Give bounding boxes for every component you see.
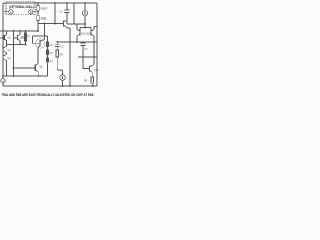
wire R6 to rail	[91, 83, 93, 86]
wire x55 from rail	[54, 3, 56, 24]
wire V+ drop x74	[73, 3, 75, 24]
node junction dot (55,23.5)	[54, 23, 56, 25]
node junction dot (38.2,76)	[37, 75, 39, 77]
node junction dot (77,42)	[76, 41, 78, 43]
wire input bus y31	[0, 30, 38, 32]
resistor R1	[46, 42, 48, 47]
wire V- bottom rail	[3, 85, 97, 87]
wire left vertical (null pin 1 / base line)	[2, 3, 4, 79]
wire stack verticals	[46, 47, 48, 76]
current source I2	[60, 75, 65, 86]
transistor Q2	[14, 31, 25, 45]
wire null pin8 to R2 node	[33, 11, 38, 13]
transistor Q3	[3, 45, 11, 55]
resistor R4	[46, 58, 48, 63]
resistor R2A	[37, 6, 40, 11]
resistor R7	[25, 31, 27, 45]
wire x13.5 tail bus	[13, 38, 15, 76]
pin 8 circle	[29, 10, 33, 14]
node junction dot (94,57)	[93, 56, 95, 58]
node junction dot (38,3)	[37, 2, 39, 4]
svg-text:(OPTIONAL NULL): (OPTIONAL NULL)	[9, 5, 34, 9]
wire Q7 collector vertical x44.4	[43, 24, 45, 40]
svg-text:Q4: Q4	[7, 57, 11, 60]
node junction dot (70,86)	[69, 85, 71, 87]
svg-text:R1: R1	[50, 44, 54, 47]
capacitor C3	[80, 42, 88, 57]
node junction dot (13.5,44.5)	[13, 44, 15, 46]
wire R2 branch vertical	[37, 3, 39, 31]
resistor R6	[91, 77, 94, 83]
resistor R5	[56, 50, 59, 57]
node junction dot (94,42)	[93, 41, 95, 43]
node junction dot (3,31)	[2, 30, 4, 32]
capacitor C2	[55, 42, 64, 50]
wire R5 to current source	[57, 57, 62, 75]
svg-text:R3: R3	[50, 52, 54, 55]
node junction dot (85,3)	[84, 2, 86, 4]
node junction dot (74,24)	[73, 23, 75, 25]
node junction dot (62.5,86)	[62, 85, 64, 87]
optional null dashed box	[6, 2, 35, 15]
node junction dot (70,42)	[69, 41, 71, 43]
node junction dot (25.5,44.5)	[25, 44, 27, 46]
svg-text:R6: R6	[84, 79, 88, 83]
node junction dot (38,31)	[37, 30, 39, 32]
svg-text:Q21: Q21	[94, 69, 99, 72]
resistor R2B	[37, 15, 40, 20]
svg-text:Q3: Q3	[7, 49, 11, 52]
wire output pair base line	[80, 28, 91, 30]
node junction dot (83,57)	[82, 56, 84, 58]
svg-text:Q5: Q5	[39, 66, 43, 69]
wire V+ top rail	[3, 2, 97, 4]
node junction dot (74,3)	[73, 2, 75, 4]
wire left vertical below pin circle	[2, 83, 4, 86]
node junction dot (20,31)	[19, 30, 21, 32]
node junction dot (57.3,42)	[56, 41, 58, 43]
node junction dot (67,3)	[66, 2, 68, 4]
transistor Q5	[14, 64, 44, 76]
transistor Q4	[3, 54, 11, 76]
svg-text:Q1: Q1	[8, 37, 12, 40]
wire null pin1 stub	[3, 11, 9, 13]
svg-text:C3: C3	[84, 48, 88, 51]
node junction dot (25.5,31)	[25, 30, 27, 32]
node junction dot (13.5,31)	[13, 30, 15, 32]
current source I1	[82, 3, 87, 28]
transistor Q7	[27, 35, 45, 64]
wire emitter bus line A	[3, 75, 47, 77]
transistor Q21	[83, 57, 99, 77]
capacitor C1	[60, 3, 70, 20]
node junction dot (85,27.5)	[84, 27, 86, 29]
svg-text:R2A*: R2A*	[41, 7, 49, 11]
node junction dot (44.5,23.5)	[44, 23, 46, 25]
transistor Q6	[64, 20, 71, 28]
wire collector node to current source y24	[67, 20, 85, 24]
svg-text:R5: R5	[60, 53, 64, 56]
transistor Q1	[0, 31, 11, 45]
node junction dot (3,76)	[2, 75, 4, 77]
svg-text:*R2A AND R2B ARE ELECTRONICALL: *R2A AND R2B ARE ELECTRONICALLY ADJUSTED…	[2, 93, 94, 97]
node junction dot (13.5,68)	[13, 67, 15, 69]
svg-text:R4: R4	[50, 60, 54, 63]
transistor Q20	[86, 27, 97, 65]
svg-text:C1: C1	[60, 11, 64, 14]
pin 1 circle	[9, 10, 13, 14]
wire base feed y23.5	[38, 23, 64, 25]
resistor R3	[46, 50, 48, 55]
svg-text:C2: C2	[60, 45, 64, 48]
node junction dot (38,11.8)	[37, 11, 39, 13]
svg-text:Q20: Q20	[86, 32, 91, 35]
wire right rail	[96, 3, 98, 86]
wire y36 to stack	[33, 36, 48, 43]
node junction dot (93,86)	[92, 85, 94, 87]
wire emitter join y44.5	[7, 44, 26, 46]
node junction dot (85,24)	[84, 23, 86, 25]
svg-text:Q7: Q7	[27, 35, 31, 38]
transistor Q19	[77, 24, 86, 42]
wire output long vertical x70	[69, 28, 71, 86]
node junction dot (13.5,76)	[13, 75, 15, 77]
pin 4 circle V-	[1, 79, 5, 83]
wire lower right line y57	[78, 56, 97, 58]
svg-text:R2B: R2B	[41, 17, 47, 21]
wire output line y42	[57, 41, 97, 43]
node junction dot (55,3)	[54, 2, 56, 4]
